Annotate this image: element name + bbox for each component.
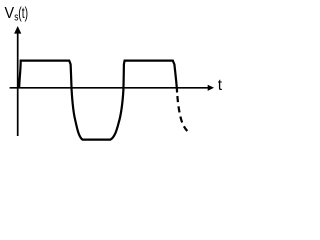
svg-text:t: t xyxy=(218,77,223,94)
svg-text:V: V xyxy=(5,5,15,22)
svg-text:(t): (t) xyxy=(18,5,28,22)
y-axis xyxy=(17,32,19,136)
waveform solid trace xyxy=(19,61,177,140)
x-axis xyxy=(10,87,209,89)
y-axis arrowhead xyxy=(14,26,21,34)
label Vs(t) xyxy=(5,5,29,23)
waveform dashed tail xyxy=(177,96,187,131)
x-axis arrowhead xyxy=(208,85,214,91)
